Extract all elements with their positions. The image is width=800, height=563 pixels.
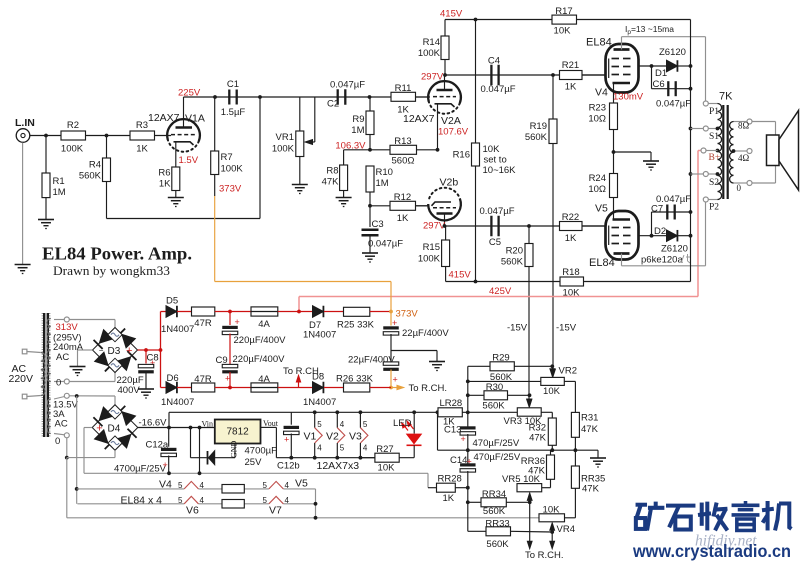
svg-text:C14: C14	[450, 455, 467, 466]
svg-text:AC: AC	[56, 352, 69, 363]
svg-text:P1: P1	[709, 107, 719, 117]
svg-text:1K: 1K	[136, 144, 148, 155]
svg-text:0: 0	[56, 378, 61, 389]
svg-text:12AX7: 12AX7	[403, 113, 435, 125]
svg-text:C6: C6	[653, 79, 665, 90]
svg-text:C1: C1	[227, 79, 239, 90]
svg-text:0.047µF: 0.047µF	[480, 84, 515, 95]
svg-text:V3: V3	[349, 431, 362, 443]
svg-text:R3: R3	[136, 120, 148, 131]
svg-text:R16: R16	[453, 150, 470, 161]
svg-text:100K: 100K	[272, 144, 295, 155]
svg-text:Z6120: Z6120	[661, 244, 688, 255]
svg-text:1N4007: 1N4007	[161, 397, 194, 408]
svg-text:V4: V4	[595, 87, 608, 99]
svg-text:560K: 560K	[79, 171, 102, 182]
svg-text:10~16K: 10~16K	[483, 165, 517, 176]
svg-text:560K: 560K	[483, 506, 506, 517]
svg-text:4: 4	[200, 496, 205, 505]
svg-text:R13: R13	[394, 136, 411, 147]
svg-text:47R: 47R	[194, 318, 212, 329]
svg-text:470µF/25V: 470µF/25V	[474, 452, 521, 463]
svg-text:1K: 1K	[159, 179, 171, 190]
svg-text:C3: C3	[372, 219, 384, 230]
svg-text:0.047µF: 0.047µF	[656, 99, 691, 110]
svg-text:Z6120: Z6120	[659, 47, 686, 58]
svg-text:100K: 100K	[61, 144, 84, 155]
svg-text:100K: 100K	[221, 164, 244, 175]
svg-text:4: 4	[340, 420, 345, 429]
svg-text:47K: 47K	[581, 424, 599, 435]
svg-text:7K: 7K	[719, 91, 733, 103]
svg-text:47K: 47K	[582, 484, 600, 495]
svg-text:5: 5	[340, 444, 345, 453]
svg-text:B+: B+	[709, 153, 721, 163]
svg-text:0: 0	[55, 436, 60, 447]
svg-text:P2: P2	[709, 203, 719, 213]
svg-text:LED: LED	[393, 418, 412, 429]
svg-text:+: +	[284, 435, 289, 445]
svg-text:V5: V5	[595, 203, 608, 215]
svg-text:−: −	[99, 346, 104, 355]
svg-text:297V: 297V	[421, 72, 444, 83]
svg-text:R12: R12	[394, 192, 411, 203]
svg-text:1N4007: 1N4007	[161, 324, 194, 335]
svg-text:4Ω: 4Ω	[738, 153, 750, 163]
svg-text:107.6V: 107.6V	[438, 127, 469, 138]
svg-text:4: 4	[317, 444, 322, 453]
svg-text:5: 5	[178, 496, 183, 505]
svg-text:+: +	[163, 460, 168, 470]
svg-text:Drawn by wongkm33: Drawn by wongkm33	[53, 263, 170, 278]
svg-text:+: +	[393, 375, 398, 385]
svg-text:1M: 1M	[376, 178, 389, 189]
svg-text:R14: R14	[423, 37, 440, 48]
svg-text:1K: 1K	[443, 493, 455, 504]
svg-text:47K: 47K	[322, 177, 340, 188]
svg-text:To R.CH.: To R.CH.	[409, 383, 448, 394]
svg-text:25V: 25V	[245, 457, 263, 468]
svg-text:VR1: VR1	[276, 132, 294, 143]
svg-text:D6: D6	[167, 373, 179, 384]
svg-text:C12a: C12a	[146, 440, 169, 451]
svg-text:5: 5	[263, 496, 268, 505]
svg-text:4A: 4A	[258, 319, 270, 330]
svg-text:22µF/400V: 22µF/400V	[402, 328, 449, 339]
svg-text:-15V: -15V	[507, 323, 528, 334]
svg-text:EL84: EL84	[589, 257, 615, 269]
svg-text:D3: D3	[108, 346, 121, 357]
svg-text:+: +	[461, 434, 466, 444]
svg-text:R19: R19	[530, 121, 547, 132]
svg-text:5: 5	[263, 481, 268, 490]
svg-text:400V: 400V	[118, 385, 141, 396]
svg-text:R20: R20	[506, 246, 523, 257]
svg-text:373V: 373V	[219, 184, 242, 195]
svg-text:560Ω: 560Ω	[392, 156, 415, 167]
svg-text:47K: 47K	[529, 433, 547, 444]
svg-text:p6ke120a: p6ke120a	[641, 255, 683, 266]
svg-text:R30: R30	[486, 382, 503, 393]
svg-text:R6: R6	[158, 168, 170, 179]
svg-text:10K: 10K	[378, 463, 396, 474]
svg-text:C2: C2	[327, 99, 339, 110]
svg-text:R22: R22	[562, 212, 579, 223]
svg-text:10K: 10K	[483, 144, 501, 155]
svg-text:4: 4	[285, 496, 290, 505]
svg-text:R29: R29	[492, 353, 509, 364]
svg-text:1.5µF: 1.5µF	[221, 107, 246, 118]
svg-text:297V: 297V	[423, 221, 446, 232]
svg-text:-16.6V: -16.6V	[139, 418, 168, 429]
svg-text:V2b: V2b	[440, 177, 459, 189]
svg-text:EL84 x 4: EL84 x 4	[121, 495, 163, 507]
svg-text:0.047µF: 0.047µF	[479, 206, 514, 217]
svg-text:4: 4	[363, 444, 368, 453]
svg-text:V5: V5	[295, 478, 308, 490]
svg-text:560K: 560K	[501, 257, 524, 268]
svg-text:1N4007: 1N4007	[303, 330, 336, 341]
svg-text:1N4007: 1N4007	[303, 397, 336, 408]
svg-text:R27: R27	[376, 444, 393, 455]
svg-text:R7: R7	[221, 152, 233, 163]
svg-text:0.047µF: 0.047µF	[330, 80, 365, 91]
svg-text:R4: R4	[89, 160, 101, 171]
svg-text:LR28: LR28	[440, 398, 463, 409]
svg-text:5: 5	[363, 420, 368, 429]
svg-text:4700µF/25V: 4700µF/25V	[114, 464, 167, 475]
svg-text:R21: R21	[562, 60, 579, 71]
svg-text:www.crystalradio.cn: www.crystalradio.cn	[632, 541, 791, 561]
svg-text:RR28: RR28	[438, 474, 462, 485]
svg-text:S2: S2	[709, 178, 719, 188]
svg-text:130mV: 130mV	[613, 92, 644, 103]
svg-text:+: +	[126, 345, 132, 357]
svg-text:220µF/400V: 220µF/400V	[234, 335, 287, 346]
svg-text:+: +	[467, 457, 472, 467]
svg-text:RR33: RR33	[485, 519, 509, 530]
svg-text:R10: R10	[376, 167, 393, 178]
svg-text:1M: 1M	[351, 125, 364, 136]
svg-text:C4: C4	[488, 56, 500, 67]
svg-text:R11: R11	[395, 83, 412, 94]
svg-text:8Ω: 8Ω	[738, 121, 750, 131]
svg-text:1K: 1K	[565, 82, 577, 93]
svg-text:-15V: -15V	[556, 323, 577, 334]
svg-text:EL84: EL84	[586, 37, 612, 49]
svg-text:RR34: RR34	[482, 489, 506, 500]
svg-text:EL84 Power. Amp.: EL84 Power. Amp.	[42, 244, 192, 264]
svg-text:Vin: Vin	[202, 420, 214, 429]
svg-text:R24: R24	[589, 173, 606, 184]
svg-text:1K: 1K	[565, 233, 577, 244]
svg-text:5: 5	[317, 420, 322, 429]
svg-text:220V: 220V	[9, 373, 34, 385]
svg-text:313V: 313V	[56, 322, 79, 333]
svg-text:R26 33K: R26 33K	[336, 374, 374, 385]
svg-text:C5: C5	[489, 237, 501, 248]
svg-text:R2: R2	[67, 120, 79, 131]
svg-text:415V: 415V	[449, 270, 472, 281]
svg-text:V1: V1	[304, 431, 317, 443]
svg-text:R23: R23	[589, 103, 606, 114]
svg-text:R31: R31	[581, 413, 598, 424]
svg-text:VR2: VR2	[559, 366, 577, 377]
svg-text:100K: 100K	[418, 254, 441, 265]
svg-text:V7: V7	[269, 505, 282, 517]
svg-text:7812: 7812	[226, 427, 249, 438]
svg-text:470µF/25V: 470µF/25V	[473, 438, 520, 449]
svg-text:D4: D4	[108, 423, 121, 434]
svg-text:5: 5	[178, 481, 183, 490]
svg-text:1M: 1M	[53, 187, 66, 198]
svg-text:0: 0	[737, 183, 742, 193]
svg-text:10K: 10K	[543, 386, 561, 397]
svg-text:560K: 560K	[486, 539, 509, 550]
svg-text:V4: V4	[159, 479, 172, 491]
svg-text:S1: S1	[709, 132, 719, 142]
svg-text:+: +	[96, 422, 102, 434]
svg-text:D1: D1	[655, 68, 667, 79]
svg-text:V2A: V2A	[441, 115, 461, 127]
svg-text:R9: R9	[352, 114, 364, 125]
svg-text:373V: 373V	[396, 309, 419, 320]
svg-text:1K: 1K	[397, 213, 409, 224]
svg-text:47R: 47R	[194, 374, 212, 385]
svg-text:+: +	[235, 317, 240, 327]
svg-text:560K: 560K	[482, 401, 505, 412]
svg-text:R17: R17	[555, 6, 572, 17]
svg-text:415V: 415V	[440, 9, 463, 20]
svg-text:R18: R18	[562, 267, 579, 278]
svg-text:4A: 4A	[258, 374, 270, 385]
svg-text:D5: D5	[166, 296, 178, 307]
svg-text:D8: D8	[312, 372, 324, 383]
svg-text:C13: C13	[444, 425, 461, 436]
svg-text:1.5V: 1.5V	[179, 155, 199, 166]
svg-text:10K: 10K	[554, 26, 572, 37]
svg-text:4: 4	[285, 481, 290, 490]
svg-text:V1A: V1A	[185, 113, 205, 125]
svg-text:4: 4	[200, 481, 205, 490]
svg-text:0.047µF: 0.047µF	[368, 239, 403, 250]
svg-text:To R.CH.: To R.CH.	[525, 550, 564, 561]
svg-text:V2: V2	[326, 431, 339, 443]
svg-text:D2: D2	[654, 226, 666, 237]
svg-text:4700µF: 4700µF	[245, 446, 278, 457]
svg-text:12AX7x3: 12AX7x3	[317, 460, 360, 472]
svg-text:V6: V6	[186, 505, 199, 517]
svg-text:425V: 425V	[489, 286, 512, 297]
svg-text:R25 33K: R25 33K	[337, 320, 375, 331]
svg-text:C12b: C12b	[277, 461, 300, 472]
svg-text:R1: R1	[53, 176, 65, 187]
svg-text:AC: AC	[55, 419, 68, 430]
svg-text:GND: GND	[230, 440, 239, 458]
svg-text:R15: R15	[423, 242, 440, 253]
svg-text:560K: 560K	[525, 132, 548, 143]
svg-text:C7: C7	[651, 204, 663, 215]
svg-text:set to: set to	[484, 155, 507, 166]
svg-text:R8: R8	[326, 166, 338, 177]
svg-text:VR4: VR4	[557, 524, 575, 535]
svg-text:Vout: Vout	[263, 419, 279, 428]
svg-text:L.IN: L.IN	[15, 117, 35, 129]
svg-text:10Ω: 10Ω	[588, 184, 606, 195]
svg-text:12AX7: 12AX7	[148, 112, 180, 124]
svg-text:220µF/400V: 220µF/400V	[233, 354, 286, 365]
svg-text:100K: 100K	[418, 48, 441, 59]
svg-text:10Ω: 10Ω	[588, 114, 606, 125]
